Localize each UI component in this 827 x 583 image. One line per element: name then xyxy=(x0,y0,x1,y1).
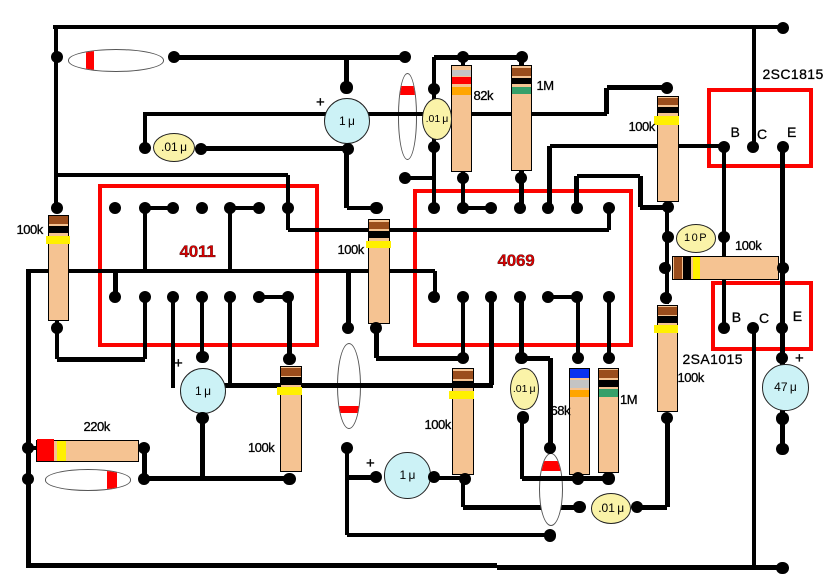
plus mark C1 xyxy=(316,94,324,111)
junction C5 right xyxy=(195,143,207,155)
diode D1 (horizontal, top left) xyxy=(68,49,164,71)
wire D2 bottom to vertical xyxy=(405,176,434,181)
junction D2 bottom xyxy=(399,172,411,184)
value label R3 100k xyxy=(338,242,364,257)
resistor R4 100k (top right) xyxy=(657,96,679,202)
wire down from below C1 xyxy=(344,149,349,208)
pin 7 bottom of 4069 xyxy=(603,291,615,303)
wire C3 right to R7 bottom xyxy=(434,476,465,481)
wire mid horizontal through C1 and C4 xyxy=(145,112,607,117)
capacitor C2 1u xyxy=(180,368,226,414)
wire stub below C7 47u xyxy=(780,419,785,450)
wire R3 bottom stub xyxy=(374,328,379,359)
label 4011 xyxy=(180,242,216,262)
value label R6 100k xyxy=(248,440,274,455)
wire 4011 top pins 5-6 xyxy=(230,206,259,211)
junction D3 bottom xyxy=(341,442,353,454)
wire across to 4011 pin9 xyxy=(57,357,145,362)
junction R9 top xyxy=(603,352,615,364)
wire C6 right xyxy=(637,505,667,510)
wire Q1 base down to Q2 base xyxy=(722,147,727,327)
wire rail to Q1 collector xyxy=(752,27,757,148)
wire D1 right to D2 top xyxy=(174,55,406,60)
wire to C6 left xyxy=(463,505,579,510)
junction C4 top xyxy=(428,83,440,95)
pin 4 bottom of 4069 xyxy=(514,291,526,303)
wire 4069 bottom pins 5-6 xyxy=(548,295,577,300)
pin 6 bottom of 4011 xyxy=(253,291,265,303)
label 4069 xyxy=(498,251,535,271)
wire R5 bottom down xyxy=(55,319,60,359)
resistor R9 1M (bottom) xyxy=(598,368,619,473)
junction R7 top node xyxy=(457,352,469,364)
wire stub R2 top xyxy=(519,57,524,64)
junction C3 left xyxy=(370,471,382,483)
capacitor C9 10P xyxy=(676,224,716,253)
wire to Q1 base xyxy=(550,144,724,149)
wire 4011 pin3 down xyxy=(171,297,176,389)
resistor R12 100k (horizontal) xyxy=(672,256,780,280)
diode D2 (vertical, top) xyxy=(398,73,418,160)
diode D3 (vertical, middle) xyxy=(337,343,361,429)
wire stub R1 top xyxy=(461,57,466,66)
IC U2 4069 outline box xyxy=(413,189,633,347)
wire 4069 pin to R8 top xyxy=(576,297,581,358)
junction 10P left xyxy=(662,231,674,243)
junction R2 top xyxy=(516,51,528,63)
junction R5 bottom xyxy=(51,322,63,334)
junction R11 left on rail xyxy=(22,442,34,454)
junction R5 top xyxy=(51,202,63,214)
wire R7 bottom down xyxy=(461,479,466,508)
junction C6 left xyxy=(573,501,585,513)
wire top of R1 R2 xyxy=(434,55,522,60)
junction C4 bottom xyxy=(428,141,440,153)
value label R10 100k xyxy=(678,370,704,385)
value label R2 1M xyxy=(537,78,554,93)
junction below C7 xyxy=(776,443,788,455)
value label R1 82k xyxy=(474,88,493,103)
junction below C1 xyxy=(342,143,354,155)
wire C8 bottom down xyxy=(520,418,525,479)
pin 1 top of 4011 xyxy=(109,202,121,214)
plus mark C3 xyxy=(366,455,374,472)
wire Q2 collector to bottom rail xyxy=(752,328,757,568)
wire bus y230 to 4069 xyxy=(288,228,609,233)
junction D4 bottom xyxy=(544,529,556,541)
resistor R6 100k (bottom left) xyxy=(280,366,302,472)
wire 4011 pin5b down to y385 xyxy=(228,297,233,386)
pin 7 bottom of 4011 xyxy=(282,291,294,303)
junction R2 bottom xyxy=(515,172,527,184)
wire corner at x606 xyxy=(604,88,609,114)
pin 1 top of 4069 xyxy=(428,202,440,214)
junction C2 bottom xyxy=(196,412,208,424)
capacitor C5 .01u xyxy=(153,133,195,162)
pin label E of Q2 xyxy=(793,308,802,324)
wire node down through 10P left xyxy=(665,207,670,304)
junction R10 top xyxy=(660,292,672,304)
pin 4 top of 4069 xyxy=(514,202,526,214)
pin 2 bottom of 4011 xyxy=(139,291,151,303)
wire 4011 feed y175 xyxy=(56,173,288,178)
junction R12 right xyxy=(777,262,789,274)
pin 4 top of 4011 xyxy=(196,202,208,214)
pin 5 bottom of 4069 xyxy=(542,291,554,303)
junction R3 bottom xyxy=(370,322,382,334)
wire R1 bottom to 4069 xyxy=(461,170,466,208)
wire 4011 bottom pins 6-7 xyxy=(259,295,288,300)
resistor R2 1M (top) xyxy=(511,65,532,172)
pin 3 top of 4011 xyxy=(167,202,179,214)
junction C8 top xyxy=(515,352,527,364)
junction R4 bottom node xyxy=(662,201,674,213)
wire bus to 4011 bottom pin1 xyxy=(113,271,118,297)
junction R3 top xyxy=(370,202,382,214)
junction C5 left xyxy=(139,142,151,154)
wire D5 right to R6 bottom xyxy=(144,476,289,481)
pin 2 bottom of 4069 xyxy=(457,291,469,303)
pin C of Q1 xyxy=(747,141,759,153)
pin 2 top of 4011 xyxy=(139,202,151,214)
wire R2 bottom to 4069 xyxy=(519,169,524,208)
resistor R10 100k (right) xyxy=(657,305,678,412)
junction C7 top xyxy=(776,352,788,364)
pin label E of Q1 xyxy=(787,124,796,140)
wire 4069 pin to C8 top xyxy=(519,297,524,358)
junction bottom rail right end xyxy=(776,562,788,574)
pin label C of Q1 xyxy=(757,126,767,142)
resistor R1 82k xyxy=(451,65,472,172)
wire bottom rail right part xyxy=(497,565,785,570)
junction C8 bottom xyxy=(517,411,529,423)
pin 1 bottom of 4011 xyxy=(109,291,121,303)
pin 6 bottom of 4069 xyxy=(571,291,583,303)
resistor R3 100k (middle) xyxy=(368,219,390,324)
junction R10 bottom xyxy=(661,412,673,424)
wire to R4 100k top xyxy=(607,85,668,90)
plus mark C7 xyxy=(795,350,803,367)
pin C of Q2 xyxy=(747,322,759,334)
wire down to D3 top xyxy=(346,271,351,328)
wire 4011 top pins 2-3 xyxy=(145,206,173,211)
diode D5 (horizontal, bottom left) xyxy=(45,469,131,490)
value label R5 100k xyxy=(17,222,43,237)
wire corner down to C5 left xyxy=(143,112,148,149)
wire left vertical from top rail xyxy=(54,25,59,213)
wire bus y271 xyxy=(29,269,435,274)
wire up to R10 bottom xyxy=(665,418,670,507)
wire top supply rail xyxy=(53,25,783,30)
wire up to 4069 pin xyxy=(607,208,612,230)
transistor Q1 2SC1815 outline box xyxy=(707,88,813,168)
resistor R7 100k (bottom middle) xyxy=(452,368,474,475)
wire C4 vertical to 4069 pin xyxy=(432,57,437,208)
junction R8 top xyxy=(572,352,584,364)
pin E of Q1 xyxy=(777,141,789,153)
junction D4 top xyxy=(544,442,556,454)
wire C2 bottom down xyxy=(200,418,205,479)
resistor R11 220k xyxy=(36,440,139,462)
junction R4 top xyxy=(661,82,673,94)
wire 4011 pin5 to bus xyxy=(228,208,233,271)
junction R7 bottom xyxy=(459,473,471,485)
wire y535 to D4 bottom xyxy=(347,533,550,538)
pin 5 bottom of 4011 xyxy=(224,291,236,303)
pin 2 top of 4069 xyxy=(457,202,469,214)
junction D1 right xyxy=(168,51,180,63)
wire step down xyxy=(638,176,643,208)
pin B of Q1 xyxy=(718,141,730,153)
pin E of Q2 xyxy=(776,322,788,334)
capacitor C1 1u xyxy=(324,98,371,145)
junction above C1 xyxy=(340,81,352,93)
pin 6 top of 4011 xyxy=(253,202,265,214)
transistor Q2 2SA1015 outline box xyxy=(711,281,813,351)
wire 4069 pin up xyxy=(547,146,552,209)
capacitor C3 1u xyxy=(384,452,431,499)
wire to R4 bottom node xyxy=(640,205,667,210)
junction D5 right xyxy=(138,473,150,485)
junction top-left rail / D1 xyxy=(51,51,63,63)
wire down to D4 top xyxy=(548,358,553,448)
wire to C3 left xyxy=(347,475,376,480)
wire 4069 pin up 2 xyxy=(574,176,579,209)
junction D3 top xyxy=(342,322,354,334)
junction R8 bottom xyxy=(572,472,584,484)
wire 4011 pin2 to bus xyxy=(143,208,148,271)
pin B of Q2 xyxy=(718,322,730,334)
wire C5 right to below C1 xyxy=(201,146,348,151)
value label R7 100k xyxy=(425,417,451,432)
wire branch down to C1 plus xyxy=(344,57,349,90)
label 2SC1815 xyxy=(763,66,824,82)
resistor R8 68k xyxy=(569,368,590,476)
wire to top of R3 100k xyxy=(347,206,377,211)
wire up to 4011 bottom pin2 xyxy=(143,297,148,359)
junction C2 top xyxy=(196,351,208,363)
pin 3 top of 4069 xyxy=(485,202,497,214)
pin 6 top of 4069 xyxy=(571,202,583,214)
junction R1 top xyxy=(457,51,469,63)
junction R1 bottom xyxy=(457,172,469,184)
IC U1 4011 outline box xyxy=(98,184,320,347)
junction D2 top xyxy=(399,51,411,63)
wire to R8 R9 bottoms (over D4) xyxy=(522,476,609,481)
wire behind R11 220k xyxy=(28,446,144,451)
junction C7 bottom xyxy=(776,412,788,424)
wire bottom rail left part xyxy=(26,563,496,568)
wire left vertical rail lower xyxy=(26,269,31,567)
wire 4011 pin7 down to R6 xyxy=(287,297,292,359)
junction R6 bottom xyxy=(283,473,295,485)
wire 4011 pin to C2 top xyxy=(200,297,205,357)
wire to D4 feed xyxy=(522,356,551,361)
label 2SA1015 xyxy=(683,351,743,367)
plus mark C2 xyxy=(174,355,182,372)
junction C6 right xyxy=(631,501,643,513)
junction top rail right end xyxy=(777,22,789,34)
capacitor C8 .01u xyxy=(510,368,539,410)
pin label B of Q1 xyxy=(731,124,740,140)
junction R11 right xyxy=(138,442,150,454)
pin 4 bottom of 4011 xyxy=(196,291,208,303)
wire step right xyxy=(577,174,641,179)
pin label C of Q2 xyxy=(759,310,769,326)
pin label B of Q2 xyxy=(732,309,741,325)
junction D5 left on rail xyxy=(22,473,34,485)
wire R11 to D5 xyxy=(142,448,147,479)
capacitor C7 47u xyxy=(762,364,809,411)
pin 7 top of 4011 xyxy=(282,202,294,214)
wire Q1 emitter down through Q2 emitter xyxy=(780,147,785,418)
value label R12 100k xyxy=(735,238,761,253)
wire 4069 pin to R7 node xyxy=(461,297,466,359)
wire 4069 pin to R9 top xyxy=(607,297,612,358)
pin 5 top of 4069 xyxy=(542,202,554,214)
junction R12 left xyxy=(659,262,671,274)
value label R8 68k xyxy=(551,403,570,418)
wire down to 4069 pin8 xyxy=(433,271,438,299)
capacitor C6 .01u xyxy=(591,493,632,524)
value label R4 100k xyxy=(629,119,655,134)
pin 3 bottom of 4069 xyxy=(485,291,497,303)
pin 1 bottom of 4069 xyxy=(428,291,440,303)
value label R11 220k xyxy=(84,419,110,434)
wire D3 bottom down xyxy=(345,448,350,535)
resistor R5 100k (left) xyxy=(48,215,69,321)
pin 5 top of 4011 xyxy=(224,202,236,214)
capacitor C4 .01u xyxy=(422,98,453,140)
pin 7 top of 4069 xyxy=(603,202,615,214)
junction C3 right xyxy=(428,471,440,483)
wire 4069 top pins 2-3 xyxy=(463,206,491,211)
pin 3 bottom of 4011 xyxy=(167,291,179,303)
junction 10P right xyxy=(718,231,730,243)
wire 4069 pin down to y385 xyxy=(489,297,494,386)
wire bus y385 xyxy=(224,383,493,388)
junction R9 bottom xyxy=(602,472,614,484)
junction R6 top xyxy=(283,353,295,365)
wire down through 4011 pin xyxy=(286,175,291,230)
diode D4 (vertical, bottom) xyxy=(539,453,563,526)
value label R9 1M xyxy=(620,392,637,407)
wire R3 bottom across to R7 top xyxy=(376,356,463,361)
